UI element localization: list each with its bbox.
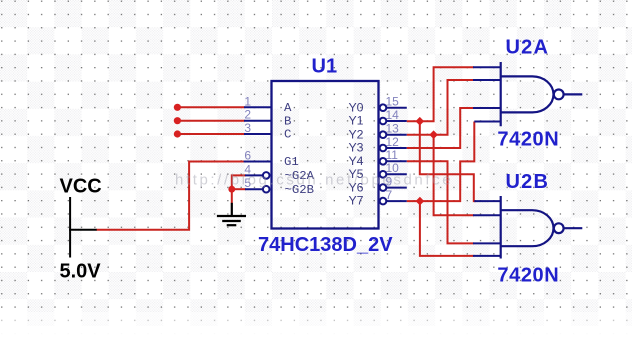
wire: input C to pin 3 (177, 133, 244, 135)
svg-text:http://blog.csdn.net/opesdnfce: http://blog.csdn.net/opesdnfce (175, 172, 453, 189)
U2A input pin 4 stub (473, 107, 501, 109)
U2A input pin 1 stub (473, 66, 501, 68)
pin B stub (pin 2) (244, 120, 271, 122)
svg-text:3: 3 (244, 121, 251, 135)
junction dot on Y7 (416, 197, 425, 206)
pin ~G2B stub (pin 5) with bubble (245, 188, 263, 190)
svg-text:A: A (284, 101, 292, 115)
svg-text:Y3: Y3 (348, 141, 363, 155)
wire: red drop to ground (231, 189, 233, 203)
junction dot on Y2 (429, 130, 438, 139)
wire: ~G2B pin 5 to ground net (232, 188, 246, 190)
svg-text:14: 14 (386, 108, 400, 122)
wire Y7 branch down to U2B input 4 (420, 201, 474, 256)
wire net Y1: to U2A input 1 and down (407, 67, 476, 256)
NAND body of U2A (501, 76, 554, 112)
U2B output pin stub (564, 227, 583, 229)
wire net Y7: horizontal (407, 122, 475, 202)
svg-text:74HC138D_2V: 74HC138D_2V (258, 234, 393, 256)
svg-text:5.0V: 5.0V (60, 261, 102, 283)
wire Y1 branch down to U2B input 1 (420, 121, 476, 201)
ground stem (231, 203, 233, 215)
wire: input A to pin 1 (177, 106, 244, 108)
svg-text:7420N: 7420N (497, 129, 559, 151)
U2B input pin 9 stub (474, 200, 500, 202)
svg-text:Y7: Y7 (348, 194, 363, 208)
svg-text:Y1: Y1 (348, 114, 363, 128)
U2A input bar (500, 62, 502, 126)
ground bar 3 (227, 224, 237, 226)
power source VCC vertical lead (69, 197, 71, 258)
wire: VCC to G1 (pin 6) (97, 162, 245, 230)
wire net Y4: down to U2B input 3 (407, 161, 474, 243)
U2B input pin 10 stub (473, 214, 501, 216)
svg-text:Y2: Y2 (348, 127, 363, 141)
ground bar 2 (222, 220, 241, 222)
svg-text:6: 6 (244, 149, 251, 163)
bottom fade of scan (0, 312, 632, 337)
pin Y7 (7) bubble and stub (380, 198, 387, 205)
pin Y2 (13) bubble and stub (380, 131, 387, 138)
svg-text:Y4: Y4 (348, 154, 363, 168)
junction dot on Y1 (416, 117, 425, 126)
svg-text:2: 2 (244, 108, 251, 122)
NAND body of U2B (501, 210, 554, 246)
svg-text:7420N: 7420N (497, 265, 559, 287)
pin A stub (pin 1) (244, 106, 271, 108)
node C terminal dot (174, 130, 181, 137)
U2A inverting bubble (554, 90, 564, 100)
svg-text:12: 12 (386, 135, 400, 149)
svg-text:C: C (284, 128, 291, 142)
ground bar 1 (217, 215, 246, 217)
wire: ~G2A pin 4 to ground net (232, 175, 246, 189)
svg-text:VCC: VCC (60, 175, 102, 197)
U2B input bar (500, 196, 502, 259)
wire: input B to pin 2 (177, 120, 244, 122)
U2B input pin 13 stub (473, 255, 501, 257)
U2A output pin stub (564, 93, 583, 95)
node G2 junction dot (228, 186, 235, 193)
U2A input pin 5 stub (474, 121, 500, 123)
node A terminal dot (174, 104, 181, 111)
svg-text:7: 7 (386, 188, 393, 202)
svg-text:11: 11 (386, 148, 399, 162)
pin G1 stub (pin 6) (244, 161, 271, 163)
pin Y1 (14) bubble and stub (380, 118, 387, 125)
U2B input pin 12 stub (473, 242, 501, 244)
svg-text:U2B: U2B (506, 171, 550, 193)
pin Y4 (11) bubble and stub (380, 158, 387, 165)
U2B inverting bubble (554, 223, 564, 233)
svg-text:15: 15 (386, 95, 400, 109)
wire net Y2: horizontal and up to U2A input 2 (407, 80, 474, 135)
svg-text:Y0: Y0 (348, 100, 363, 114)
pin ~G2A stub (pin 4) with bubble (245, 174, 263, 176)
pin Y5 (10) bubble and stub (380, 171, 387, 178)
pin Y0 (15) bubble and stub (380, 104, 387, 111)
pin Y3 (12) bubble and stub (380, 145, 387, 152)
U2A input pin 2 stub (473, 79, 501, 81)
wire net Y3: up to U2A input 3 (407, 108, 474, 148)
svg-text:U1: U1 (312, 56, 338, 78)
pin C stub (pin 3) (244, 133, 271, 135)
node B terminal dot (174, 117, 181, 124)
svg-text:13: 13 (386, 122, 400, 136)
wire Y1 horizontal (407, 67, 474, 121)
svg-text:B: B (284, 114, 291, 128)
pin Y6 (9) bubble and stub (380, 184, 387, 191)
wire Y2 branch down to U2B input 2 (434, 135, 474, 216)
svg-text:1: 1 (244, 94, 251, 108)
power source VCC terminal tick (69, 229, 97, 231)
svg-text:U2A: U2A (506, 37, 550, 59)
chip U1 74HC138 body (272, 81, 379, 229)
svg-text:G1: G1 (284, 155, 299, 169)
